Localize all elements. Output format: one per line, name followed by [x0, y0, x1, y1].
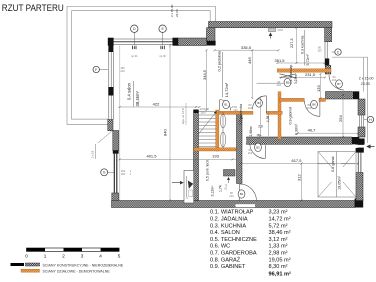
svg-text:0.5. TECHNICZNE: 0.5. TECHNICZNE — [210, 237, 257, 243]
svg-text:0,7 garderoba: 0,7 garderoba — [239, 104, 243, 125]
svg-text:100: 100 — [317, 49, 322, 53]
svg-text:2: 2 — [62, 254, 65, 259]
svg-text:0.2. JADALNIA: 0.2. JADALNIA — [210, 217, 248, 223]
svg-text:0.3. KUCHNIA: 0.3. KUCHNIA — [210, 223, 246, 229]
svg-text:193: 193 — [212, 154, 219, 159]
svg-text:210: 210 — [233, 108, 238, 112]
svg-text:312: 312 — [296, 174, 301, 181]
svg-text:210: 210 — [248, 151, 253, 155]
svg-text:23,00: 23,00 — [175, 9, 179, 17]
svg-text:840: 840 — [163, 129, 168, 136]
svg-text:401,5: 401,5 — [146, 154, 157, 159]
svg-text:8,30 m²: 8,30 m² — [269, 264, 288, 270]
svg-text:0,9 gabinet: 0,9 gabinet — [289, 107, 293, 125]
svg-text:2 x 15,00: 2 x 15,00 — [170, 4, 174, 17]
svg-text:96,91 m²: 96,91 m² — [269, 271, 292, 278]
svg-text:B7: B7 — [337, 82, 341, 86]
svg-text:351,5: 351,5 — [275, 58, 286, 63]
svg-text:17x17,8: 17x17,8 — [200, 107, 210, 111]
svg-text:3,12 m²: 3,12 m² — [269, 237, 288, 243]
svg-text:133: 133 — [316, 85, 321, 92]
svg-text:0,8 garaż: 0,8 garaż — [331, 156, 335, 172]
svg-text:231,5: 231,5 — [305, 72, 316, 77]
svg-text:0.4. SALON: 0.4. SALON — [210, 230, 240, 236]
svg-text:0,3 kuchnia: 0,3 kuchnia — [300, 36, 304, 54]
svg-text:0.7. GARDEROBA: 0.7. GARDEROBA — [210, 251, 257, 257]
svg-text:np 3b: np 3b — [131, 54, 138, 58]
svg-text:B2: B2 — [240, 192, 244, 196]
svg-text:14,72 m²: 14,72 m² — [269, 217, 291, 223]
svg-text:np 3b: np 3b — [159, 54, 166, 58]
svg-text:0.8. GARAŻ: 0.8. GARAŻ — [210, 256, 241, 263]
svg-text:19,05m²: 19,05m² — [338, 175, 342, 190]
svg-text:5: 5 — [118, 254, 121, 259]
svg-text:254: 254 — [338, 115, 343, 122]
svg-text:ŚCIANY KONSTRUKCYJNE - NIEROZB: ŚCIANY KONSTRUKCYJNE - NIEROZBIERALNE — [43, 262, 124, 267]
svg-text:3,23 m²: 3,23 m² — [269, 210, 288, 216]
svg-text:B6: B6 — [312, 103, 316, 107]
svg-text:2 x 18: 2 x 18 — [91, 150, 95, 158]
svg-text:B1: B1 — [224, 103, 228, 107]
svg-text:422: 422 — [153, 102, 160, 107]
svg-text:210: 210 — [307, 106, 312, 110]
svg-text:B3: B3 — [256, 145, 260, 149]
svg-text:B4: B4 — [257, 101, 261, 105]
svg-text:4: 4 — [99, 254, 102, 259]
svg-text:2,98m²: 2,98m² — [249, 125, 253, 136]
svg-text:0,5 pom. tech.: 0,5 pom. tech. — [205, 159, 209, 181]
svg-text:0,4 salon: 0,4 salon — [127, 82, 132, 100]
svg-text:38,46m²: 38,46m² — [135, 91, 140, 107]
svg-text:227,3: 227,3 — [290, 38, 294, 48]
svg-text:210: 210 — [229, 194, 234, 198]
svg-text:1,74: 1,74 — [219, 185, 223, 192]
svg-text:210: 210 — [248, 106, 253, 110]
svg-text:200: 200 — [121, 172, 126, 176]
svg-text:0,2 jadalnia: 0,2 jadalnia — [216, 50, 221, 71]
svg-text:G: G — [103, 171, 106, 175]
svg-text:0,1 wiatrołap: 0,1 wiatrołap — [289, 65, 293, 84]
svg-text:0.6. WC: 0.6. WC — [210, 244, 230, 250]
svg-text:3: 3 — [81, 254, 84, 259]
svg-text:5,72m²: 5,72m² — [306, 54, 310, 66]
svg-text:38,46 m²: 38,46 m² — [269, 230, 291, 236]
svg-text:335,5: 335,5 — [241, 45, 252, 50]
svg-text:5,72 m²: 5,72 m² — [269, 223, 288, 229]
svg-text:14,72m²: 14,72m² — [224, 82, 229, 97]
svg-text:23,00: 23,00 — [361, 82, 370, 86]
svg-text:2 x 15,00: 2 x 15,00 — [359, 77, 374, 81]
svg-text:1,33 m²: 1,33 m² — [269, 244, 288, 250]
svg-text:1: 1 — [44, 254, 47, 259]
svg-text:19,05 m²: 19,05 m² — [269, 257, 291, 263]
svg-text:0: 0 — [25, 254, 28, 259]
svg-text:RZUT PARTERU: RZUT PARTERU — [2, 3, 64, 13]
svg-text:40,7: 40,7 — [308, 128, 317, 133]
svg-text:344,5: 344,5 — [202, 69, 207, 80]
svg-text:F: F — [95, 68, 97, 72]
svg-text:ŚCIANY DZIAŁOWE - DEMONTOWALNE: ŚCIANY DZIAŁOWE - DEMONTOWALNE — [43, 269, 111, 274]
svg-text:210: 210 — [332, 78, 337, 82]
svg-text:2,98 m²: 2,98 m² — [269, 251, 288, 257]
svg-text:617,5: 617,5 — [291, 158, 302, 163]
svg-text:3,12m²: 3,12m² — [210, 185, 214, 197]
svg-text:210: 210 — [120, 69, 125, 73]
svg-text:28,0: 28,0 — [201, 111, 207, 115]
svg-text:0.9. GABINET: 0.9. GABINET — [210, 264, 246, 270]
svg-text:0.1. WIATROŁAP: 0.1. WIATROŁAP — [210, 210, 254, 216]
svg-text:210: 210 — [277, 83, 282, 87]
svg-text:8,30m²: 8,30m² — [295, 123, 299, 135]
svg-text:2,6: 2,6 — [258, 125, 263, 129]
svg-text:wys. st. 17,9: wys. st. 17,9 — [181, 108, 185, 124]
svg-text:3,23m²: 3,23m² — [294, 74, 298, 84]
svg-text:1,38: 1,38 — [266, 116, 270, 122]
svg-text:446: 446 — [247, 57, 252, 64]
